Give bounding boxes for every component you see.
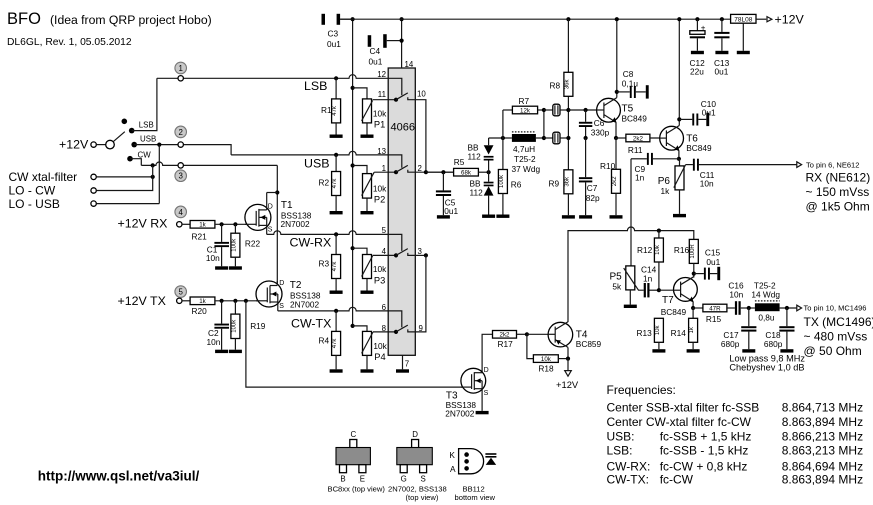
- svg-text:14 Wdg: 14 Wdg: [751, 290, 780, 300]
- wire T6 emitter: [678, 150, 680, 158]
- svg-text:2k2: 2k2: [633, 135, 644, 142]
- svg-text:(Idea from QRP project Hobo): (Idea from QRP project Hobo): [50, 13, 212, 27]
- transistor T4: [548, 322, 601, 349]
- wire LO - CW: [96, 165, 152, 190]
- svg-text:BC849: BC849: [661, 307, 687, 317]
- ground C17: [742, 349, 755, 352]
- wire CW-TX line: [278, 307, 388, 311]
- svg-text:0u1: 0u1: [706, 257, 720, 267]
- switch gate D: [388, 311, 414, 334]
- ground R4: [330, 369, 343, 372]
- svg-text:37 Wdg: 37 Wdg: [512, 164, 541, 174]
- svg-text:R11: R11: [628, 145, 643, 155]
- svg-text:R16: R16: [674, 245, 690, 255]
- svg-text:To pin 10, MC1496: To pin 10, MC1496: [804, 304, 867, 313]
- ground R1: [330, 135, 343, 138]
- ground R2: [330, 211, 343, 214]
- capacitor C16: [728, 280, 755, 315]
- wire CW contact down: [130, 159, 141, 166]
- svg-text:USB:: USB:: [607, 429, 635, 443]
- capacitor C3: [322, 14, 353, 49]
- svg-text:CW xtal-filter: CW xtal-filter: [9, 170, 78, 184]
- package BC8xx top view: [328, 430, 386, 494]
- svg-text:G: G: [401, 475, 407, 484]
- wire pot supply vertical: [352, 19, 354, 326]
- wire T4 base: [527, 333, 555, 335]
- svg-text:2: 2: [179, 128, 183, 137]
- potentiometer P6: [658, 159, 686, 214]
- svg-text:bottom view: bottom view: [455, 493, 496, 502]
- svg-text:0u1: 0u1: [369, 56, 383, 66]
- svg-text:100k: 100k: [231, 319, 237, 333]
- node R22 tap: [233, 222, 237, 226]
- ground pin 7: [396, 369, 409, 372]
- svg-text:68k: 68k: [461, 170, 472, 177]
- svg-text:R8: R8: [550, 81, 561, 91]
- marker circled 2: [175, 126, 187, 138]
- wire T6 collector: [678, 19, 680, 125]
- svg-text:R6: R6: [511, 180, 522, 190]
- svg-text:Chebyshev 1,0 dB: Chebyshev 1,0 dB: [729, 363, 804, 373]
- node T7 emitter: [691, 306, 695, 310]
- switch gate B: [388, 155, 414, 174]
- ground R6: [496, 215, 509, 218]
- svg-text:47k: 47k: [332, 338, 338, 349]
- svg-text:330p: 330p: [591, 128, 610, 138]
- terminal line 5: [177, 298, 182, 303]
- resistor R20: [190, 297, 215, 316]
- svg-text:R21: R21: [192, 232, 208, 242]
- svg-text:S: S: [420, 475, 425, 484]
- capacitor C11: [686, 159, 715, 189]
- node C18 tap: [785, 306, 789, 310]
- wire RX output: [699, 164, 797, 166]
- wire LO - USB: [96, 203, 159, 205]
- svg-text:0u1: 0u1: [702, 108, 716, 118]
- ground C1: [215, 266, 228, 269]
- svg-text:+12V RX: +12V RX: [118, 216, 168, 230]
- node C5 tap: [441, 170, 445, 174]
- svg-text:LSB: LSB: [139, 121, 154, 130]
- table row 4: [607, 444, 864, 458]
- svg-text:TX (MC1496): TX (MC1496): [804, 315, 873, 329]
- node C6 top: [584, 108, 588, 112]
- svg-text:Center SSB-xtal filter fc-SSB: Center SSB-xtal filter fc-SSB: [607, 401, 760, 415]
- svg-text:10n: 10n: [729, 290, 743, 300]
- arrow RX output: [797, 162, 802, 168]
- svg-text:R2: R2: [319, 178, 330, 188]
- capacitor C18: [764, 308, 795, 349]
- table row 6: [607, 473, 864, 487]
- svg-text:4,7uH: 4,7uH: [513, 144, 535, 154]
- node T1 drain tap: [275, 190, 279, 194]
- svg-text:fc-SSB + 1,5 kHz: fc-SSB + 1,5 kHz: [660, 429, 752, 443]
- ground C13: [715, 51, 728, 54]
- pin 7 ground lead: [402, 355, 404, 369]
- ground BB112: [482, 215, 495, 218]
- svg-text:+12V: +12V: [775, 13, 805, 27]
- svg-text:+12V TX: +12V TX: [118, 294, 166, 308]
- resistor R3: [319, 232, 341, 290]
- wire pin 3 to bus: [415, 254, 426, 256]
- node C6 bottom: [584, 136, 588, 140]
- wire pin 14 supply: [401, 19, 403, 68]
- svg-text:47k: 47k: [332, 178, 338, 189]
- capacitor C12 electrolytic: [690, 17, 706, 76]
- capacitor C7: [579, 138, 600, 215]
- svg-text:4: 4: [179, 208, 184, 217]
- svg-text:BC8xx (top view): BC8xx (top view): [328, 485, 386, 494]
- capacitor C14: [641, 265, 659, 298]
- svg-text:1k: 1k: [661, 186, 671, 196]
- node pin14 rail: [400, 17, 404, 21]
- svg-text:10n: 10n: [206, 253, 220, 263]
- node T6 emitter: [677, 157, 681, 161]
- wire top supply rail: [340, 18, 730, 20]
- resistor R4: [319, 309, 341, 370]
- node T3 branch: [244, 299, 248, 303]
- svg-text:R4: R4: [319, 335, 330, 345]
- svg-text:0,8u: 0,8u: [758, 313, 775, 323]
- wire pin 11: [373, 99, 396, 101]
- svg-text:D: D: [279, 280, 284, 287]
- svg-text:LSB:: LSB:: [607, 444, 633, 458]
- svg-text:100R: 100R: [690, 244, 696, 259]
- node bus pin2: [424, 170, 428, 174]
- wire pin 9 to bus: [415, 255, 426, 332]
- svg-text:CW-RX: CW-RX: [290, 235, 332, 249]
- svg-text:R13: R13: [637, 328, 653, 338]
- svg-text:LSB: LSB: [304, 79, 327, 93]
- svg-text:http://www.qsl.net/va3iul/: http://www.qsl.net/va3iul/: [38, 469, 200, 484]
- node C1 tap: [220, 222, 224, 226]
- svg-text:T7: T7: [662, 295, 674, 306]
- terminal LO - USB: [91, 201, 96, 206]
- svg-text:@ 50 Ohm: @ 50 Ohm: [804, 344, 862, 358]
- svg-text:R1: R1: [321, 105, 332, 115]
- svg-text:P3: P3: [374, 275, 385, 285]
- wire T4 emitter to +12V: [567, 347, 569, 358]
- marker circled 3: [175, 170, 187, 182]
- svg-text:R19: R19: [250, 321, 266, 331]
- ground P3: [361, 291, 374, 294]
- svg-text:Center CW-xtal filter fc-CW: Center CW-xtal filter fc-CW: [607, 415, 752, 429]
- capacitor C15: [694, 248, 721, 281]
- node rail T5: [615, 17, 619, 21]
- wire output bus to R5: [426, 171, 454, 173]
- svg-text:0u1: 0u1: [715, 66, 729, 76]
- node R19 tap: [233, 299, 237, 303]
- svg-text:100k: 100k: [499, 174, 505, 188]
- svg-text:fc-CW: fc-CW: [660, 473, 694, 487]
- crystal Q1 upper: [544, 104, 569, 116]
- resistor R2: [319, 153, 341, 211]
- svg-text:2k2: 2k2: [500, 332, 511, 339]
- potentiometer P1: [351, 86, 388, 135]
- wire varactor node line: [489, 137, 512, 139]
- svg-text:680p: 680p: [721, 339, 740, 349]
- svg-text:10n: 10n: [207, 337, 221, 347]
- svg-text:~ 150 mVss: ~ 150 mVss: [806, 185, 870, 199]
- svg-text:BC859: BC859: [576, 339, 602, 349]
- switch contact LSB: [129, 128, 135, 134]
- svg-text:10: 10: [417, 89, 426, 98]
- svg-text:C7: C7: [587, 183, 598, 193]
- wire pin 10 to bus: [415, 100, 426, 173]
- svg-text:12: 12: [377, 70, 386, 79]
- resistor R18: [527, 334, 568, 373]
- svg-text:2N7002: 2N7002: [281, 219, 310, 229]
- svg-text:R9: R9: [549, 178, 560, 188]
- node T7 base: [657, 288, 661, 292]
- svg-text:36k: 36k: [564, 176, 570, 187]
- transistor T7: [661, 277, 698, 318]
- node on xtal wire: [151, 175, 155, 179]
- capacitor C4: [368, 34, 402, 66]
- svg-text:10k: 10k: [373, 109, 387, 119]
- svg-text:2k2: 2k2: [612, 176, 618, 186]
- table row 1: [607, 401, 864, 415]
- supply arrow +12V TX: [556, 359, 579, 390]
- svg-text:1: 1: [382, 164, 386, 173]
- svg-text:+12V: +12V: [59, 137, 89, 151]
- svg-text:C3: C3: [328, 29, 339, 39]
- svg-text:E: E: [360, 475, 365, 484]
- ground R22: [229, 266, 242, 269]
- node C8 tap: [615, 90, 619, 94]
- IC U1 4066 body: [388, 68, 415, 355]
- svg-text:10k: 10k: [655, 244, 661, 255]
- svg-text:P4: P4: [374, 352, 385, 362]
- svg-text:@ 1k5 Ohm: @ 1k5 Ohm: [806, 199, 870, 213]
- svg-text:P2: P2: [374, 194, 385, 204]
- terminal circle line 1: [178, 76, 183, 81]
- switch pole S1: [106, 132, 125, 149]
- svg-text:8.866,213 MHz: 8.866,213 MHz: [782, 429, 863, 443]
- svg-text:4066: 4066: [391, 122, 415, 134]
- svg-text:R14: R14: [671, 328, 687, 338]
- svg-text:fc-SSB - 1,5 kHz: fc-SSB - 1,5 kHz: [660, 444, 749, 458]
- resistor R8: [550, 17, 573, 96]
- resistor R13: [637, 318, 664, 349]
- node R12 top: [657, 229, 661, 233]
- svg-text:P1: P1: [374, 120, 385, 130]
- resistor R16: [674, 239, 698, 277]
- svg-text:S: S: [268, 227, 273, 234]
- svg-text:C: C: [350, 430, 356, 439]
- svg-text:47k: 47k: [332, 261, 338, 272]
- svg-text:2N7002: 2N7002: [445, 409, 474, 419]
- svg-text:R12: R12: [637, 245, 653, 255]
- wire control line 2 USB: [231, 151, 388, 155]
- svg-text:T25-2: T25-2: [514, 154, 536, 164]
- potentiometer P5: [610, 266, 644, 305]
- inductor L2 T25-2: [751, 280, 796, 322]
- wire +12V input arrow: [756, 13, 805, 27]
- resistor R6: [498, 138, 521, 215]
- node CW join xtal-filter: [151, 163, 155, 167]
- wire pin 1: [374, 171, 396, 173]
- svg-text:USB: USB: [140, 134, 156, 143]
- ground P5: [624, 305, 637, 308]
- terminal +12V: [91, 142, 96, 147]
- diode BB112 lower: [470, 172, 494, 214]
- svg-text:D: D: [412, 430, 418, 439]
- resistor R10: [600, 138, 621, 215]
- ground C18: [780, 349, 793, 352]
- svg-text:R18: R18: [538, 364, 554, 374]
- svg-text:BC849: BC849: [686, 143, 712, 153]
- node varactor junction: [487, 170, 491, 174]
- transistor T2: [256, 280, 321, 311]
- switch gate A: [388, 78, 414, 101]
- svg-text:14: 14: [405, 60, 414, 69]
- node C17 tap: [747, 306, 751, 310]
- svg-text:R10: R10: [600, 161, 616, 171]
- node crystal left lower: [542, 136, 546, 140]
- svg-text:+12V: +12V: [556, 379, 579, 390]
- node C4 to pin14: [400, 39, 404, 43]
- wire LO-USB riser: [158, 145, 160, 204]
- svg-text:6: 6: [382, 303, 387, 312]
- svg-text:0,1u: 0,1u: [622, 79, 639, 89]
- package BB112 bottom view: [449, 449, 496, 502]
- svg-text:LO - USB: LO - USB: [9, 197, 60, 211]
- resistor R5: [454, 157, 489, 176]
- wire terminal to R20: [182, 300, 190, 302]
- ground C5: [437, 215, 450, 218]
- table row 3: [607, 429, 864, 443]
- resistor R21: [190, 221, 215, 242]
- svg-text:To pin 6, NE612: To pin 6, NE612: [806, 161, 859, 170]
- package 2N7002 top view: [388, 430, 447, 502]
- svg-text:1k: 1k: [199, 298, 206, 305]
- regulator 78L08: [731, 14, 756, 50]
- resistor R7: [503, 96, 544, 114]
- node crystal left upper: [542, 108, 546, 112]
- svg-text:S: S: [484, 390, 489, 397]
- potentiometer P2: [351, 163, 388, 211]
- svg-text:47k: 47k: [332, 105, 338, 116]
- svg-text:680p: 680p: [764, 339, 783, 349]
- ground R9: [562, 215, 575, 218]
- wire T1 drain branch: [267, 192, 278, 194]
- marker circled 1: [175, 62, 187, 74]
- transistor T3: [445, 367, 488, 419]
- svg-text:10k: 10k: [373, 184, 387, 194]
- svg-text:8.863,213 MHz: 8.863,213 MHz: [782, 444, 863, 458]
- terminal line 4: [177, 222, 182, 227]
- resistor R11: [616, 134, 666, 155]
- svg-text:1n: 1n: [635, 172, 645, 182]
- resistor R1: [321, 76, 341, 134]
- svg-text:1: 1: [179, 64, 183, 73]
- svg-text:K: K: [449, 450, 455, 460]
- svg-text:(top view): (top view): [406, 493, 439, 502]
- marker circled 4: [175, 206, 187, 218]
- svg-text:13: 13: [377, 147, 386, 156]
- node C2 tap: [220, 299, 224, 303]
- svg-text:100k: 100k: [231, 238, 237, 252]
- svg-text:DL6GL, Rev. 1, 05.05.2012: DL6GL, Rev. 1, 05.05.2012: [7, 37, 132, 48]
- wire control line 1 LSB: [157, 75, 388, 79]
- svg-text:8.863,894 MHz: 8.863,894 MHz: [782, 415, 863, 429]
- ground R10: [610, 215, 623, 218]
- potentiometer P3: [351, 246, 388, 290]
- resistor R12: [637, 231, 663, 291]
- svg-text:C4: C4: [370, 46, 381, 56]
- node base bias lower: [566, 136, 570, 140]
- svg-text:1n: 1n: [643, 274, 653, 284]
- capacitor C8: [617, 69, 649, 99]
- capacitor C1: [206, 224, 229, 266]
- svg-text:112: 112: [468, 152, 482, 162]
- arrow TX output: [797, 305, 802, 311]
- resistor R22: [231, 224, 261, 266]
- node USB join LO-USB: [157, 143, 161, 147]
- node T4 base R18: [525, 332, 529, 336]
- wire R21 to T1 gate: [215, 223, 256, 225]
- resistor R17: [482, 331, 527, 373]
- wire R20 to T2 gate: [215, 300, 267, 302]
- svg-text:47R: 47R: [709, 305, 721, 312]
- svg-text:11: 11: [378, 90, 386, 99]
- capacitor C10: [679, 99, 716, 126]
- svg-text:R5: R5: [454, 157, 465, 167]
- svg-text:R17: R17: [498, 339, 514, 349]
- node R6 tap: [501, 136, 505, 140]
- switch gate C: [388, 234, 414, 257]
- svg-text:+: +: [701, 23, 706, 32]
- wire terminal to pole: [96, 144, 105, 146]
- wire CW xtal-filter: [96, 176, 152, 178]
- node C10 tap: [677, 117, 681, 121]
- title BFO: [7, 10, 212, 28]
- node C15 tap: [692, 272, 696, 276]
- svg-text:10k: 10k: [655, 324, 661, 335]
- wire pin 4: [373, 254, 396, 256]
- resistor R14: [671, 308, 698, 349]
- svg-text:0u1: 0u1: [327, 39, 341, 49]
- node R18 emitter: [566, 357, 570, 361]
- svg-text:1k: 1k: [199, 222, 206, 229]
- svg-text:2N7002: 2N7002: [290, 300, 319, 310]
- terminal circle line 3: [178, 163, 183, 168]
- ground C12: [691, 51, 704, 54]
- svg-text:5k: 5k: [612, 282, 622, 292]
- svg-text:10k: 10k: [541, 356, 552, 363]
- switch contact CW: [127, 156, 133, 162]
- ground C7: [579, 215, 592, 218]
- svg-text:0u1: 0u1: [444, 206, 458, 216]
- wire C9 to P5 drop: [630, 159, 632, 266]
- capacitor C2: [207, 301, 230, 350]
- wire T5 base: [568, 109, 604, 111]
- svg-text:Frequencies:: Frequencies:: [607, 383, 676, 397]
- marker circled 5: [175, 286, 187, 298]
- diode BB112 upper: [468, 138, 494, 172]
- svg-text:R22: R22: [245, 238, 261, 248]
- wire USB contact to line 2: [134, 145, 231, 155]
- svg-text:7: 7: [405, 360, 409, 369]
- node bus pin3: [424, 253, 428, 257]
- capacitor C17: [721, 308, 757, 349]
- ground T3: [476, 411, 489, 414]
- wire R7 riser: [502, 110, 504, 138]
- svg-text:R7: R7: [519, 96, 530, 106]
- svg-text:S: S: [279, 303, 284, 310]
- terminal circle line 2: [178, 142, 183, 147]
